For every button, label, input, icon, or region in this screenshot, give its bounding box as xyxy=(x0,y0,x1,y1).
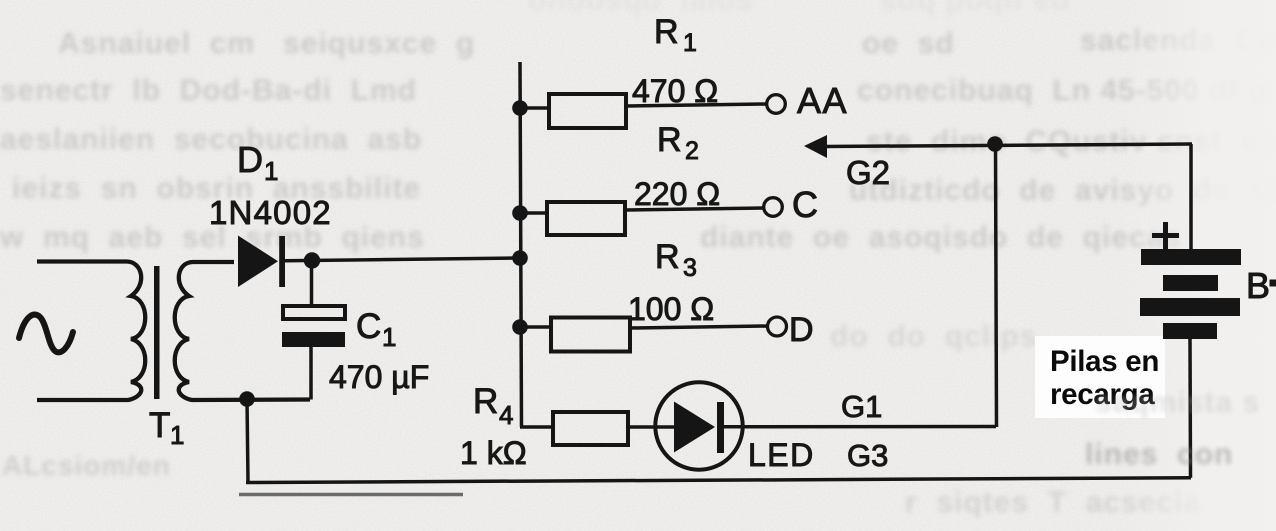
background bleed-through text xyxy=(528,0,754,18)
wire battery negative down xyxy=(1188,339,1192,478)
svg-text:470 Ω: 470 Ω xyxy=(632,73,718,109)
svg-text:D: D xyxy=(237,139,263,180)
transformer core xyxy=(154,266,160,399)
label D1 xyxy=(237,139,278,186)
svg-text:1: 1 xyxy=(264,156,278,186)
label 220 ohm xyxy=(634,176,720,212)
wire bottom rail xyxy=(246,478,1191,483)
svg-text:2: 2 xyxy=(685,137,699,165)
label 1N4002 xyxy=(209,194,332,231)
label Pilas en recarga xyxy=(1035,336,1165,418)
label C1 xyxy=(356,307,396,352)
label D xyxy=(789,311,814,349)
svg-text:T: T xyxy=(149,406,170,445)
terminal D xyxy=(768,317,787,336)
svg-text:1: 1 xyxy=(170,420,184,450)
label G1 xyxy=(841,389,882,424)
svg-text:220 Ω: 220 Ω xyxy=(634,176,720,212)
LED xyxy=(655,382,742,469)
label B1 xyxy=(1246,265,1276,306)
label 1 kohm xyxy=(460,435,527,471)
label R2 xyxy=(657,121,699,165)
label T1 xyxy=(149,406,184,450)
svg-text:C: C xyxy=(792,184,818,225)
svg-text:B: B xyxy=(1246,265,1270,306)
resistor R1 xyxy=(520,94,767,128)
junction node main rail xyxy=(512,250,528,266)
svg-text:G2: G2 xyxy=(846,154,890,191)
AC source V1 xyxy=(19,315,73,353)
svg-text:G3: G3 xyxy=(847,438,888,473)
label R4 xyxy=(473,382,513,430)
label 100 ohm xyxy=(628,291,714,327)
transformer T1 secondary winding xyxy=(175,262,310,400)
scan artifact line xyxy=(239,493,463,497)
capacitor C1 xyxy=(282,260,345,400)
svg-text:1N4002: 1N4002 xyxy=(209,194,332,231)
svg-text:470 µF: 470 µF xyxy=(329,359,429,395)
wire LED to right vertical (G1) xyxy=(722,425,996,429)
junction node R1 xyxy=(512,100,528,116)
wire diode cathode to bus node xyxy=(285,258,520,261)
label C xyxy=(792,184,818,225)
label 470 ohm xyxy=(632,73,718,109)
svg-text:G1: G1 xyxy=(841,389,882,424)
svg-text:R: R xyxy=(655,238,680,276)
label G2 xyxy=(846,154,890,191)
svg-text:R: R xyxy=(657,121,682,159)
svg-text:4: 4 xyxy=(499,400,513,430)
right edge fade of bleed-through xyxy=(1120,0,1276,531)
junction node G2 xyxy=(987,136,1003,152)
svg-text:3: 3 xyxy=(683,254,697,282)
junction node diode/capacitor xyxy=(304,252,320,268)
resistor R4 xyxy=(520,412,676,445)
svg-text:LED: LED xyxy=(748,437,815,473)
junction node R2 xyxy=(512,205,528,221)
battery B1 xyxy=(1140,249,1241,339)
label G3 xyxy=(847,438,888,473)
svg-text:1 kΩ: 1 kΩ xyxy=(460,435,527,471)
resistor R2 xyxy=(520,202,765,235)
transformer T1 primary winding (with AC leads) xyxy=(37,262,145,401)
resistor R3 xyxy=(520,318,768,352)
label 470 uF xyxy=(329,359,429,395)
svg-text:AA: AA xyxy=(797,80,848,121)
svg-text:1: 1 xyxy=(382,322,396,352)
svg-text:C: C xyxy=(356,307,381,346)
junction node R3 xyxy=(512,319,528,335)
arrow G2 xyxy=(804,135,827,158)
svg-text:100 Ω: 100 Ω xyxy=(628,291,714,327)
junction node secondary bottom xyxy=(239,391,255,407)
diode D1 xyxy=(238,236,285,288)
bus wire vertical xyxy=(520,62,522,427)
label AA xyxy=(797,80,848,121)
label LED xyxy=(748,437,815,473)
wire to battery positive xyxy=(1189,144,1193,251)
label R1 xyxy=(654,13,697,57)
svg-text:D: D xyxy=(789,311,814,349)
wire G2 rail xyxy=(826,144,1192,147)
wire down from secondary bottom xyxy=(247,399,248,483)
svg-text:R: R xyxy=(473,382,498,421)
svg-text:1: 1 xyxy=(683,29,697,57)
label R3 xyxy=(655,238,697,282)
svg-text:R: R xyxy=(654,13,679,51)
terminal AA xyxy=(767,95,786,114)
battery plus sign xyxy=(1152,222,1179,249)
terminal C xyxy=(764,198,783,217)
wire right vertical xyxy=(996,145,997,427)
